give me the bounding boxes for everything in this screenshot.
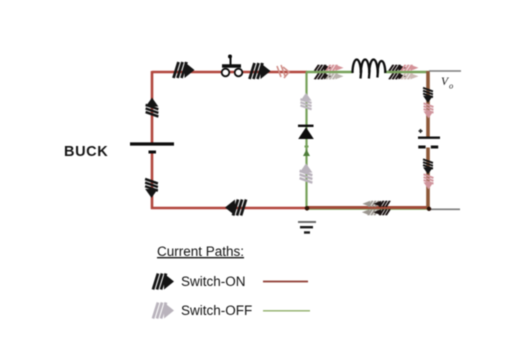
wire: right brown vertical lower	[426, 148, 430, 210]
wire: bottom red wire (battery return, left segment)	[151, 207, 307, 210]
switch S1 (contacts and actuator)	[222, 55, 243, 77]
legend red line	[263, 281, 308, 283]
svg-text:Switch-ON: Switch-ON	[181, 274, 246, 289]
diode D1 triangle (anode, pointing up)	[298, 127, 314, 139]
arrow: switch-ON current, after switch (pointing right)	[250, 63, 271, 79]
capacitor C1 plus sign	[419, 129, 423, 133]
wire: bottom shared segment (green under red, looks brown)	[307, 208, 429, 209]
legend icon: black ON arrow	[153, 274, 174, 290]
legend green line	[263, 310, 310, 312]
wire: thin gray output stub top (Vo+)	[429, 70, 461, 72]
wire: left red vertical below battery down to bottom wire	[151, 152, 154, 209]
inductor L1 coil	[353, 59, 386, 78]
svg-text:BUCK: BUCK	[64, 144, 108, 160]
arrow: OFF current up diode branch (below diode)	[300, 163, 313, 182]
svg-text:Current Paths:: Current Paths:	[157, 244, 244, 259]
wire: left red vertical wire (battery branch)	[151, 71, 154, 143]
capacitor C1 bottom plate (dashed)	[418, 146, 438, 149]
arrow pair: ON+OFF after inductor (two squashed rows)	[389, 65, 418, 80]
wire: green top segment inductor to output node	[384, 71, 429, 73]
arrow: faint red arrow outline before node	[277, 65, 289, 78]
diode D1 cathode bar	[298, 125, 314, 127]
arrow pair: ON+OFF down right branch upper	[423, 88, 433, 119]
wire: right brown vertical (output/cap branch, shared path) upper	[426, 71, 430, 137]
ground symbol	[298, 222, 316, 233]
node junction dot at output bottom corner	[427, 207, 431, 211]
arrow: ON current up left branch	[146, 98, 159, 117]
wire: green top segment switch node to inductor	[306, 71, 353, 73]
arrow pair: ON+OFF left on bottom shared segment	[362, 201, 390, 215]
arrowhead: green up arrow below diode	[303, 146, 310, 157]
arrow: ON current down left branch (return)	[145, 179, 158, 198]
battery V1 (BUCK source) top plate	[130, 142, 174, 145]
wire: green vertical diode branch	[305, 72, 307, 208]
legend icon: gray OFF arrow	[153, 303, 174, 319]
arrow: ON current left on bottom wire	[225, 200, 246, 216]
wire: top red wire from battery top to switch node	[152, 71, 307, 73]
wire: thin gray output stub bottom (Vo-)	[429, 208, 460, 210]
capacitor C1 top plate	[418, 136, 440, 138]
arrow pair: ON+OFF down right branch lower	[423, 159, 433, 189]
arrow: switch-ON current, top-left (pointing right)	[174, 62, 195, 78]
svg-text:o: o	[449, 81, 453, 91]
arrow: OFF current up diode branch (above diode)	[300, 93, 311, 109]
svg-text:Switch-OFF: Switch-OFF	[181, 303, 252, 318]
arrow pair: ON+OFF before inductor (two squashed rows)	[315, 65, 344, 80]
node junction dot at diode branch / bottom wire	[305, 206, 310, 211]
battery V1 bottom short plate	[149, 151, 157, 154]
